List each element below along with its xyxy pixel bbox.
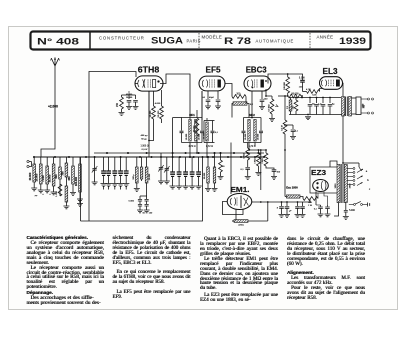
tube EBC3 envelope (244, 76, 271, 91)
EF5 filter capacitor 0,1 (212, 121, 214, 131)
EM1 plate wire to HT (252, 201, 311, 204)
mains taps (347, 168, 353, 170)
mains switch (354, 204, 356, 206)
svg-text:a: a (366, 170, 368, 173)
EZ3 filament wires (315, 191, 317, 205)
tube EBC3 electrodes (247, 80, 253, 88)
switch enclosure left wire (80, 157, 82, 221)
header cell divider 1 (89, 32, 91, 50)
EL3 plate wire to output transformer (342, 83, 345, 96)
svg-text:0,1: 0,1 (215, 132, 219, 134)
AVC capacitor 0,1 (245, 168, 250, 170)
EL3 bypass capacitor 1,4 (316, 98, 318, 104)
switch section coil 50.000 (207, 157, 209, 167)
svg-text:0,1: 0,1 (314, 209, 318, 211)
MF1 primary trimmer (181, 118, 183, 131)
EL3 cathode resistor 150 (295, 98, 297, 101)
detector filter capacitor 0,1 (292, 125, 294, 129)
coil bank link resistor 1.000 (58, 184, 62, 196)
coupling choke coil (233, 102, 247, 105)
switch enclosure bottom (81, 157, 203, 221)
svg-text:Exc 1800: Exc 1800 (286, 185, 298, 189)
AVC resistor 50.000 (278, 95, 288, 97)
EF5 cathode electrolytic 40uF (207, 91, 209, 99)
tube EF5 electrodes (202, 80, 208, 88)
svg-text:20.000: 20.000 (35, 173, 39, 181)
tube EM1 envelope (227, 194, 252, 210)
EF5 grid down-wire (201, 91, 203, 120)
transformer HT lead to EZ3 (330, 161, 337, 167)
MF2 secondary coil (254, 120, 256, 142)
trimmer B1 (160, 153, 162, 168)
mains capacitor 0,1 b (327, 205, 329, 207)
tube EL3 envelope (320, 77, 343, 90)
svg-text:0,5 MΩ: 0,5 MΩ (268, 104, 270, 111)
svg-text:250: 250 (116, 102, 119, 107)
EL3 cathode coil 2,5 (290, 98, 292, 101)
svg-text:1 MΩ: 1 MΩ (255, 158, 257, 164)
loudspeaker HP (356, 97, 361, 115)
power transformer secondary winding (344, 165, 347, 203)
svg-text:150: 150 (293, 105, 295, 109)
svg-text:1800: 1800 (335, 183, 337, 189)
tube EZ3 envelope (313, 180, 329, 192)
svg-text:100: 100 (276, 172, 280, 174)
transformer top wire (343, 162, 359, 164)
antenna (51, 58, 58, 67)
text column 1 (27, 236, 105, 305)
EM1 bottom link wire (248, 220, 268, 222)
svg-text:≈2.000: ≈2.000 (48, 105, 58, 109)
svg-text:6TH8: 6TH8 (138, 65, 160, 75)
svg-text:40μF: 40μF (209, 97, 215, 99)
IF transformer MF2 rails (244, 117, 262, 119)
svg-text:0,72 Ω: 0,72 Ω (206, 145, 213, 148)
svg-text:7.000: 7.000 (41, 175, 45, 182)
svg-text:μμ: μμ (35, 195, 38, 197)
EL3 bypass capacitor b (322, 98, 324, 104)
field winding wires (285, 196, 287, 198)
padder capacitor bank1 C1 (103, 157, 105, 171)
EF5 screen bypass capacitor (217, 91, 219, 99)
text column 4 (287, 237, 365, 300)
osc anode resistor 50.000 (160, 106, 164, 119)
MF2 bottom stub (248, 143, 250, 151)
svg-text:8: 8 (277, 208, 279, 210)
EL3 cathode return bus (289, 114, 345, 116)
output transformer B+ wire (342, 116, 344, 163)
padder capacitor bank1 C2 (108, 157, 110, 171)
header cell divider 2 (198, 33, 200, 48)
MF1 secondary wire to EF5 grid (201, 91, 203, 118)
tube 6TH8 electrodes (138, 79, 145, 88)
upper bus dots (106, 152, 108, 154)
aerial coil L5 500 (59, 157, 61, 167)
EF5 filter feed wires (203, 121, 205, 143)
EBC3 diode return wire (266, 89, 272, 96)
EF5 bias resistor 40.000 (195, 118, 199, 136)
voltage selector arrows (357, 169, 363, 185)
padder capacitor bank2 C5 (198, 157, 200, 172)
svg-text:4,72 Ω: 4,72 Ω (188, 145, 195, 148)
svg-text:20.000: 20.000 (28, 172, 32, 180)
svg-text:10.000: 10.000 (258, 133, 260, 140)
aerial coil L2 20.000 (40, 157, 42, 164)
svg-text:5.100: 5.100 (299, 78, 305, 80)
aerial coil L8 100.000 (79, 157, 81, 164)
EF5 filter coil 20.000 (206, 122, 208, 141)
6TH8 grid leads (135, 83, 138, 85)
antenna lead wire (41, 66, 55, 157)
svg-text:50.000: 50.000 (204, 172, 206, 179)
MF2 primary coil (248, 120, 250, 142)
svg-text:50.000: 50.000 (158, 110, 160, 117)
svg-text:20.000: 20.000 (149, 173, 151, 180)
mains dropping resistor 205 (303, 197, 318, 201)
mains capacitor 0,1 a (320, 205, 322, 207)
header cell divider 3 (309, 33, 311, 48)
svg-text:500: 500 (54, 174, 58, 179)
svg-text:40.000: 40.000 (193, 125, 195, 132)
svg-text:50.000: 50.000 (291, 93, 299, 95)
EZ3 smoothing wire (309, 199, 311, 203)
MF1 primary coil (189, 120, 191, 142)
trimmer B2 (166, 157, 168, 169)
tone control wire (285, 124, 293, 126)
svg-text:30.000: 30.000 (48, 174, 52, 182)
svg-text:μF: μF (289, 211, 292, 213)
6TH8 decoupling link wire (122, 94, 136, 96)
bus junction dots (33, 156, 35, 158)
speaker connection wires (352, 97, 357, 99)
padder capacitor bank1 C4 (120, 157, 122, 171)
svg-text:1.000: 1.000 (56, 190, 58, 196)
MF2 primary trimmer (243, 118, 245, 131)
EL3 bias capacitor 50 (309, 98, 311, 104)
EM1 node wires (249, 149, 266, 151)
padder capacitor 50-140 (146, 196, 148, 199)
oscillator coil 100u (136, 157, 138, 167)
EM1 series resistor (257, 153, 261, 166)
svg-text:1 MΩ: 1 MΩ (244, 153, 246, 159)
svg-text:10.000: 10.000 (150, 110, 152, 117)
text column 3 (200, 237, 278, 302)
svg-text:(250): (250) (238, 225, 243, 227)
tube EF5 envelope (199, 76, 225, 91)
coupling capacitor 5.100 (300, 80, 305, 82)
padder capacitor bank2 C4 (191, 157, 193, 172)
MF2 secondary trimmer (260, 118, 262, 131)
MF1 stub wires to bus (189, 143, 191, 158)
grid cap wire from band switch (89, 72, 136, 158)
oscillator coil 20.000 (146, 157, 148, 167)
upper switch bus wire (94, 152, 264, 154)
switch section resistor 30 (220, 153, 222, 160)
filter electrolytic 8uF b (286, 202, 288, 206)
pickup terminal circles (27, 160, 29, 162)
padder capacitor bank1 C5 (125, 157, 127, 171)
6TH8 bypass capacitor (128, 95, 130, 99)
svg-text:0,1: 0,1 (241, 169, 245, 171)
EL3 heater bus wire (289, 97, 341, 99)
EL3 grid resistor 4,7 (307, 90, 320, 94)
MF1 secondary coil (195, 120, 197, 142)
EF5 plate wire (225, 84, 232, 97)
tube EZ3 electrodes (316, 182, 318, 184)
svg-text:0,5 M: 0,5 M (281, 125, 283, 131)
IF transformer MF1 rails (182, 117, 203, 119)
AVC divider resistor 100.000 (287, 74, 289, 77)
tube 6TH8 envelope (135, 76, 163, 91)
svg-text:2 MΩ: 2 MΩ (262, 158, 264, 164)
svg-text:10.000: 10.000 (126, 97, 133, 99)
EBC3 diode load capacitor 100 (261, 91, 263, 99)
aerial coil L7 450 (72, 157, 74, 166)
tube EM1 electrodes (230, 198, 236, 206)
EM1 enclosure wires (223, 202, 244, 215)
coil bank lower links (59, 182, 61, 196)
filter electrolytic 8uF a (281, 202, 283, 206)
oscillator middle coil (141, 157, 143, 167)
AVC resistor 1 M (247, 143, 249, 149)
svg-text:10.000: 10.000 (186, 133, 188, 140)
svg-text:450: 450 (67, 176, 71, 181)
padder capacitor bank1 C3 (114, 157, 116, 171)
6TH8 screen capacitor (135, 95, 137, 99)
svg-text:EBC3: EBC3 (246, 65, 267, 75)
svg-text:EL3: EL3 (323, 66, 338, 76)
padder capacitor bank2 C1 (172, 157, 174, 172)
svg-text:.200: .200 (236, 93, 241, 96)
EL3 electrolytic 8uF (329, 98, 331, 104)
svg-text:1800: 1800 (350, 183, 352, 189)
tube EL3 electrodes (321, 80, 326, 87)
svg-text:≈8: ≈8 (202, 96, 205, 99)
transformer bottom wires (334, 203, 339, 217)
svg-text:EF5: EF5 (206, 65, 221, 75)
rectifier box (310, 167, 338, 193)
fuse 5.000 (344, 211, 348, 213)
main bus wire (34, 156, 264, 158)
6TH8 cathode resistor 250 (121, 95, 123, 97)
power transformer primary winding (337, 165, 340, 203)
6TH8 plate wire to MF1 (160, 74, 190, 119)
header outer box (31, 32, 371, 50)
power transformer core (341, 164, 343, 203)
svg-text:4.000: 4.000 (155, 103, 161, 105)
osc grid resistor 10.000 (152, 106, 156, 119)
MF1 secondary trimmer (201, 118, 203, 131)
svg-text:HP: HP (362, 103, 366, 108)
svg-text:400 μμ: 400 μμ (141, 135, 149, 137)
padder trimmer A1 (94, 157, 96, 169)
svg-text:50: 50 (142, 213, 145, 215)
switch section coil 30 (214, 153, 216, 167)
coupling wire EBC3 plate to EL3 (268, 74, 303, 84)
svg-text:6,35: 6,35 (312, 94, 317, 96)
svg-text:1 W: 1 W (308, 205, 313, 207)
HT electrolytic pair (297, 202, 299, 206)
svg-text:205: 205 (308, 202, 312, 204)
coupling resistor .200 (232, 95, 246, 99)
padder capacitor bank2 C2 (178, 157, 180, 172)
EM1 grid resistor 2 M (264, 153, 268, 166)
svg-text:+: + (42, 193, 44, 196)
svg-text:b: b (367, 178, 369, 182)
svg-text:140: 140 (149, 213, 153, 215)
svg-text:+: + (49, 193, 51, 196)
volume potentiometer 0,5 M (271, 96, 273, 99)
padder stack wires (146, 183, 148, 196)
padder capacitor bank2 C3 (185, 157, 187, 172)
svg-text:4,7Ω: 4,7Ω (306, 89, 311, 91)
svg-text:0,1: 0,1 (295, 131, 299, 133)
field winding coil (287, 195, 301, 198)
aerial coil L1 20.000 (33, 157, 35, 164)
EM1 grid capacitor 100 (272, 170, 277, 172)
text column 2 (113, 237, 191, 300)
svg-text:5.000: 5.000 (129, 201, 135, 203)
padder capacitor 5.000 (138, 200, 142, 202)
EM1 target coil (234, 220, 248, 223)
svg-text:750: 750 (60, 171, 64, 176)
svg-text:100.000: 100.000 (74, 176, 78, 186)
EM1 feed wire (230, 143, 232, 195)
svg-text:8μ: 8μ (332, 104, 335, 106)
svg-text:c: c (369, 188, 371, 191)
aerial coil L4 30.000 (53, 157, 55, 164)
osc coupling node (148, 91, 150, 141)
svg-text:1.500 Ω: 1.500 Ω (140, 146, 148, 148)
svg-text:10.000: 10.000 (245, 133, 247, 140)
EF5 filter rails (204, 120, 215, 122)
svg-text:EZ3: EZ3 (311, 170, 326, 177)
svg-text:100.000: 100.000 (284, 81, 286, 89)
svg-text:2,5: 2,5 (287, 105, 289, 109)
chassis ground bus (88, 157, 90, 221)
aerial coil L6 750 (65, 157, 67, 163)
svg-text:100.μ: 100.μ (133, 174, 135, 180)
svg-text:5.000: 5.000 (349, 210, 355, 212)
AVC node wire (301, 96, 302, 98)
detector filter resistor 0,5 M (284, 96, 286, 120)
svg-text:30: 30 (222, 166, 225, 168)
speaker terminals (368, 98, 370, 100)
output transformer (346, 97, 348, 117)
svg-text:0,5 W: 0,5 W (142, 149, 149, 151)
aerial coil L3 7.000 (46, 157, 48, 166)
svg-text:100: 100 (264, 99, 268, 101)
svg-text:50 μμ: 50 μμ (141, 139, 147, 141)
svg-text:EM1.: EM1. (231, 185, 250, 194)
EBC3 grid wire from MF2 (251, 92, 253, 118)
